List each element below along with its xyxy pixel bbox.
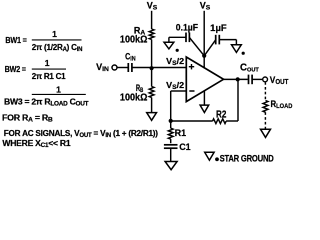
node VS decoupling junction [202,54,206,58]
svg-text:VIN: VIN [96,62,109,73]
svg-text:BW1 =: BW1 = [5,35,26,45]
resistor RA [149,29,154,40]
svg-text:COUT: COUT [240,62,259,73]
svg-text:C1: C1 [179,142,191,152]
svg-text:1: 1 [56,84,61,94]
svg-text:CIN: CIN [125,52,136,63]
svg-text:1: 1 [52,29,57,39]
capacitor 1uF [215,35,217,45]
op-amp - input symbol [189,90,194,92]
capacitor COUT [248,75,250,85]
formula BW1 fraction bar [32,39,82,41]
wire CIN to op-amp +input [132,67,186,69]
ground (0.1uF star) [164,42,174,49]
svg-text:VS: VS [147,1,158,12]
op-amp + input symbol [189,66,194,68]
svg-text:R1: R1 [175,128,187,138]
wire op-amp ground stub [203,91,205,106]
formula BW2 fraction bar [32,68,66,70]
formula BW3 fraction bar [32,93,86,95]
svg-text:VS: VS [200,1,211,12]
ground (op-amp) [200,105,209,112]
capacitor 0.1uF [185,33,187,43]
svg-text:1µF: 1µF [210,23,227,33]
ground (RLOAD) [261,129,271,137]
svg-text:FOR RA = RB: FOR RA = RB [2,113,53,124]
resistor RB [149,87,154,98]
svg-text:2π (1/2RA) CIN: 2π (1/2RA) CIN [32,42,83,53]
svg-text:0.1µF: 0.1µF [176,22,199,32]
ground (RB) [147,113,157,121]
ground (C1) [165,162,177,170]
wire VS to RA [151,11,153,29]
node A junction (RA/RB/CIN/+input) [150,66,154,70]
wire 1uF to ground [219,39,236,41]
svg-text:2π R1 C1: 2π R1 C1 [32,71,66,81]
star dot (0.1uF ground) [176,49,179,52]
wire VOUT to RLOAD (dashed) [264,82,266,100]
wire COUT to VOUT [252,78,262,80]
svg-text:R2: R2 [216,109,227,120]
resistor RLOAD [263,101,268,113]
wire node B to R1 [170,121,172,128]
svg-text:VOUT: VOUT [270,74,289,86]
capacitor CIN [127,63,129,72]
star dot (legend) [215,157,219,161]
resistor R2 [213,119,227,124]
capacitor C1 [164,144,178,146]
resistor R1 [168,128,173,139]
wire node A to RB [151,68,153,87]
op-amp U1 triangle [186,57,223,102]
wire feedback vertical [170,91,172,121]
wire 0.1uF to ground [169,36,186,38]
wire RB to ground [151,98,153,113]
star dot (1uF ground) [242,52,245,55]
wire C1 to ground [170,148,172,161]
svg-text:1: 1 [45,58,50,68]
wire 1uF to VS node (diagonal) [204,40,216,56]
terminal VOUT (open circle) [263,77,268,82]
svg-text:STAR GROUND: STAR GROUND [220,154,275,164]
node B junction (R1/R2/-input) [169,119,173,123]
wire RA to node A [151,40,153,68]
wire -input to feedback node [171,90,187,92]
wire VS down to decoupling node [203,11,205,56]
wire R2 to output node [226,120,238,122]
svg-text:100kΩ: 100kΩ [120,35,148,46]
svg-text:100kΩ: 100kΩ [120,93,148,104]
svg-text:RLOAD: RLOAD [271,99,293,110]
svg-text:BW3 = 2π RLOAD COUT: BW3 = 2π RLOAD COUT [4,96,89,107]
wire op-amp output [224,78,248,80]
wire power stub to op-amp [203,56,205,69]
node output junction [236,77,240,81]
wire R1 to C1 [170,139,172,143]
ground (1uF star) [232,45,242,53]
wire VIN to CIN [117,67,128,69]
svg-text:WHERE XC1<< R1: WHERE XC1<< R1 [2,138,70,149]
terminal VIN (open circle) [112,65,117,70]
star ground symbol (legend) [205,152,214,160]
svg-text:VS/2: VS/2 [166,80,184,91]
svg-text:BW2 =: BW2 = [5,64,26,74]
svg-text:VS/2: VS/2 [166,56,184,67]
wire RLOAD to ground (dashed) [264,112,266,129]
wire 0.1uF to VS node (diagonal) [189,38,204,56]
wire node B to R2 [171,120,213,122]
